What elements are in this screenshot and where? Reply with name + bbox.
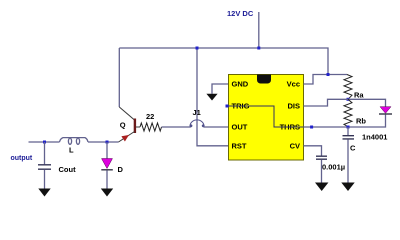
svg-text:D: D (118, 165, 124, 174)
wire 12V stem (258, 12, 260, 48)
resistor Rb (344, 99, 352, 126)
ground D (101, 189, 113, 197)
wire J1 vertical to RST (197, 48, 229, 146)
svg-text:DIS: DIS (287, 102, 300, 111)
wire D branch (106, 142, 108, 159)
junction rail-12V (257, 47, 260, 50)
svg-text:Rb: Rb (356, 117, 366, 126)
capacitor 0.001u plates (316, 156, 327, 159)
wire Ra junction to diode (348, 99, 386, 106)
junction Rb bottom (347, 126, 350, 129)
terminal TRIG dot (226, 105, 229, 108)
diode D2 cathode bar (379, 113, 392, 115)
inductor L (60, 138, 89, 142)
svg-text:0.001µ: 0.001µ (322, 163, 345, 172)
wire Cout to ground (44, 170, 46, 189)
wire GND pin (212, 84, 229, 94)
svg-text:C: C (350, 144, 356, 153)
wire D to ground (106, 170, 108, 188)
ground GND pin (206, 94, 217, 101)
wire top rail (119, 48, 328, 75)
transistor Q1 emitter lead (119, 132, 135, 143)
wire 0.001u to ground (321, 160, 323, 183)
svg-text:Q: Q (120, 120, 126, 129)
junction D (106, 141, 109, 144)
jumper J1 arc (190, 120, 204, 126)
transistor base lead (136, 126, 140, 128)
junction Ra bottom (347, 98, 350, 101)
diode D2 1n4001 (380, 107, 391, 114)
svg-text:output: output (11, 155, 33, 162)
resistor 22 (140, 123, 162, 131)
wire collector vertical (118, 48, 120, 107)
wire Rb junction to C (347, 127, 349, 135)
wire Cout branch (44, 142, 46, 164)
svg-text:L: L (69, 146, 74, 155)
junction Cout (43, 141, 46, 144)
wire Vcc pin (304, 75, 348, 85)
wire Ra junction to DIS (304, 99, 349, 106)
wire resistor to J1 (162, 126, 191, 128)
ground C (341, 183, 354, 192)
diode D1 (102, 159, 113, 169)
svg-text:Vcc: Vcc (287, 80, 300, 89)
IC notch (257, 75, 271, 84)
jumper J1 right hook (202, 124, 205, 127)
junction rail-J1 (196, 47, 199, 50)
junction THRS stub (310, 126, 313, 129)
ground Cout (38, 189, 50, 197)
diode D1 cathode bar (101, 169, 113, 171)
wire J1 to OUT (204, 126, 229, 128)
svg-text:RST: RST (232, 142, 247, 151)
wire internal TRIG to THRS (227, 106, 312, 127)
svg-text:22: 22 (146, 112, 154, 121)
capacitor Cout plates (38, 165, 51, 169)
svg-text:12V DC: 12V DC (227, 9, 254, 18)
resistor Ra (344, 75, 352, 100)
transistor Q1 collector lead (119, 107, 134, 120)
wire C to ground (347, 139, 349, 183)
junction Vcc rail (327, 73, 330, 76)
capacitor C plates (343, 136, 355, 139)
svg-text:1n4001: 1n4001 (362, 133, 387, 142)
svg-text:CV: CV (290, 142, 300, 151)
wire diode to THRS (348, 115, 386, 128)
wire output rail left (29, 141, 60, 143)
wire CV pin (304, 146, 322, 156)
svg-text:Cout: Cout (59, 165, 77, 174)
wire THRS pin (304, 126, 349, 128)
jumper J1 left hook (190, 124, 193, 127)
transistor Q1 emitter arrow (121, 135, 129, 142)
svg-text:OUT: OUT (232, 123, 248, 132)
svg-text:Ra: Ra (354, 91, 364, 100)
svg-text:GND: GND (232, 80, 249, 89)
wire L to emitter (88, 141, 119, 143)
op IC U1 555 body (229, 75, 304, 161)
transistor Q1 base bar (134, 119, 136, 134)
ground 0.001u (315, 183, 328, 192)
svg-text:J1: J1 (193, 108, 201, 117)
